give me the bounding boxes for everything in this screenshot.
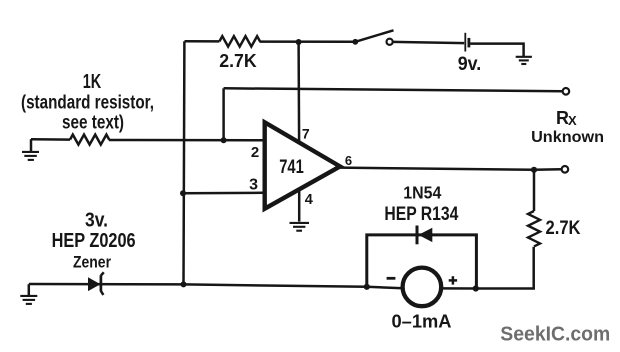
svg-text:3: 3 — [249, 177, 258, 194]
svg-text:SeekIC.com: SeekIC.com — [500, 323, 610, 346]
svg-text:3v.: 3v. — [85, 210, 108, 232]
svg-text:X: X — [568, 113, 577, 128]
svg-text:0–1mA: 0–1mA — [392, 312, 452, 332]
svg-text:741: 741 — [279, 157, 304, 178]
svg-text:1K: 1K — [83, 71, 102, 93]
svg-text:7: 7 — [302, 125, 310, 141]
svg-text:4: 4 — [305, 192, 313, 208]
svg-text:Zener: Zener — [73, 252, 111, 271]
svg-text:Unknown: Unknown — [531, 129, 604, 146]
svg-text:2.7K: 2.7K — [219, 51, 257, 71]
svg-text:6: 6 — [345, 153, 352, 168]
svg-text:9v.: 9v. — [458, 54, 482, 75]
svg-text:2: 2 — [251, 144, 259, 161]
svg-text:1N54: 1N54 — [403, 183, 441, 203]
svg-text:(standard resistor,: (standard resistor, — [21, 91, 154, 113]
svg-text:HEP R134: HEP R134 — [384, 203, 458, 225]
svg-text:2.7K: 2.7K — [546, 218, 581, 239]
svg-text:HEP Z0206: HEP Z0206 — [52, 230, 136, 252]
svg-text:see text): see text) — [62, 111, 124, 133]
